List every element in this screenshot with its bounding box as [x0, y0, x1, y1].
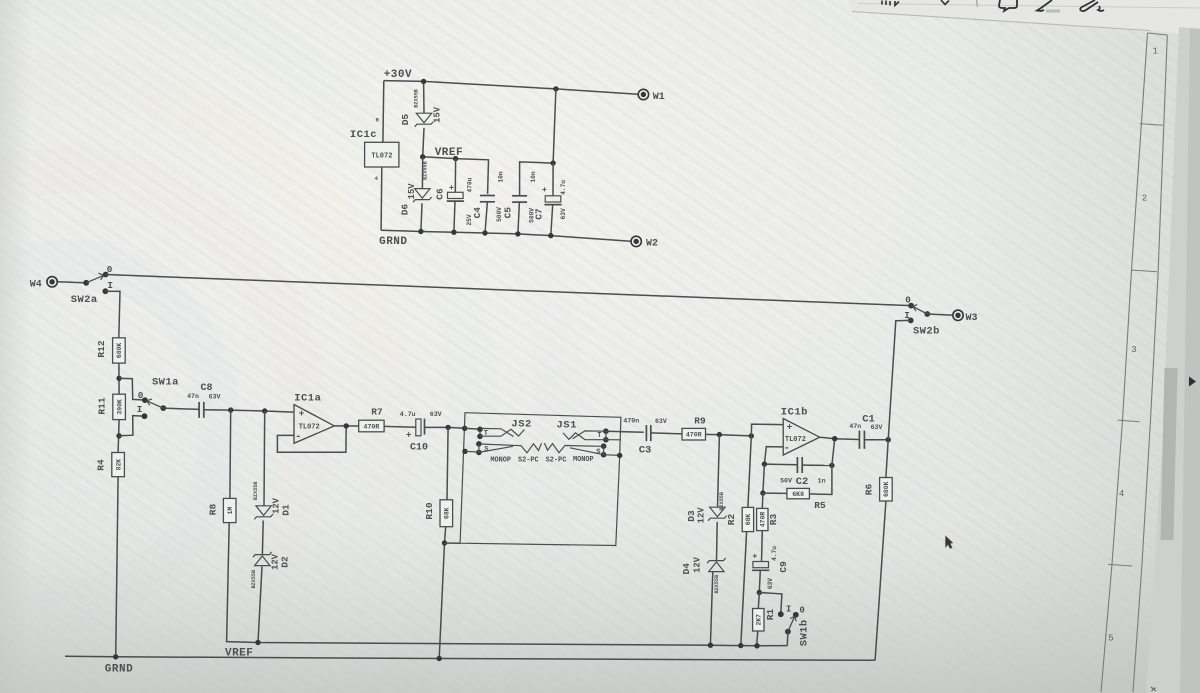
svg-text:0: 0 [138, 390, 144, 401]
junction C2/R5 left [762, 461, 767, 466]
svg-text:IC1b: IC1b [781, 406, 808, 418]
svg-text:680K: 680K [116, 343, 123, 359]
svg-text:W4: W4 [30, 280, 42, 291]
wire frame to JS2 sleeve [465, 450, 479, 453]
wire D5 cathode to VREF [423, 128, 424, 157]
jack JS2 tip arm [481, 428, 514, 436]
switch SW2a contact I [103, 288, 109, 294]
svg-text:D5: D5 [400, 114, 411, 126]
svg-text:63V: 63V [655, 418, 667, 425]
junction GRND/R10 [437, 656, 442, 661]
svg-text:I: I [137, 404, 143, 415]
svg-text:JS2: JS2 [511, 419, 531, 431]
wire JS1 tip to C3 [606, 431, 644, 432]
zener diode D6 [413, 189, 432, 203]
resistor R3 [757, 508, 780, 530]
wire SW1b pole to VREF [786, 632, 789, 646]
svg-text:4.7u: 4.7u [560, 180, 567, 195]
jack JS2 sleeve contact [476, 441, 482, 447]
switch SW1a arm [146, 401, 163, 408]
jack JS2 sleeve blade [479, 446, 513, 452]
switch SW2b arm [911, 306, 927, 314]
svg-text:W2: W2 [646, 239, 658, 250]
wire D3 top [718, 435, 720, 508]
switch SW2b contact 0 [908, 303, 914, 309]
window right edge shade [1180, 28, 1200, 693]
wire SW2b pole to W3 [927, 314, 952, 315]
svg-text:R1: R1 [765, 609, 776, 621]
wire GRND rail (power) [381, 230, 630, 241]
svg-text:47n: 47n [187, 393, 199, 400]
jack JS1 sleeve arm [545, 443, 603, 453]
wire R4 down to GRND [116, 477, 118, 657]
svg-text:68K: 68K [444, 507, 451, 519]
wire R2 top [748, 436, 751, 508]
junction R10/jack-frame [442, 540, 447, 545]
svg-text:TL072: TL072 [371, 153, 392, 161]
switch SW1a contact I [142, 413, 148, 419]
wire D6 top [421, 157, 423, 189]
scrollbar thumb [1161, 368, 1178, 540]
svg-text:6K8: 6K8 [792, 491, 804, 498]
junction C5/C7 top [550, 160, 555, 165]
svg-text:470R: 470R [686, 432, 702, 439]
svg-text:R7: R7 [371, 406, 383, 417]
svg-text:470n: 470n [623, 418, 639, 425]
zener diode D2 [253, 552, 272, 566]
jack JS2 tip switch blade [480, 429, 525, 436]
sheet frame row separator 4/5 [1108, 564, 1132, 566]
wire SW2a-0 to SW2b-0 (long bus) [106, 275, 911, 306]
sheet frame row separator 3/4 [1118, 420, 1140, 422]
svg-text:C4: C4 [472, 207, 483, 219]
svg-text:D2: D2 [280, 556, 291, 568]
wire R7 to C10 [384, 425, 416, 428]
wire R12 to R11 [118, 363, 120, 394]
svg-text:D6: D6 [400, 204, 411, 216]
wire R10 bottom to GRND [439, 527, 446, 659]
svg-text:R8: R8 [208, 504, 219, 516]
switch SW1b contact 0 [793, 612, 799, 618]
svg-text:BZX55B: BZX55B [714, 575, 720, 594]
wire C2 left [764, 463, 796, 466]
resistor R4 [95, 453, 124, 477]
svg-text:+: + [299, 408, 305, 419]
svg-text:470R: 470R [760, 512, 767, 528]
wire +30V down to C5/C7 [553, 89, 556, 163]
svg-text:8: 8 [376, 116, 380, 123]
resistor R7 [359, 406, 384, 432]
wire R1 top [758, 593, 759, 609]
wire R3 top [761, 493, 764, 508]
jack JS2 tip contact [477, 427, 483, 433]
wire C6 top [454, 159, 456, 193]
small mark at bottom edge [1151, 687, 1156, 691]
svg-text:2K7: 2K7 [756, 614, 763, 626]
sheet frame top edge [1148, 33, 1168, 35]
svg-text:GRND: GRND [105, 664, 133, 676]
svg-text:4.7u: 4.7u [400, 411, 416, 418]
resistor R11 [96, 394, 125, 419]
svg-text:4.7u: 4.7u [771, 546, 778, 561]
switch SW2b contact I [908, 318, 914, 324]
svg-text:1n: 1n [818, 477, 826, 484]
wire VREF node [423, 157, 489, 194]
svg-text:R2: R2 [726, 514, 737, 526]
toolbar separator [977, 0, 978, 7]
wire R6 down to GRND [875, 501, 886, 660]
resistor R5 [787, 488, 826, 511]
zener diode D4 [707, 558, 726, 572]
wire C9/R1 node to SW1b-I [759, 593, 782, 614]
svg-text:I: I [107, 280, 113, 291]
capacitor C2 [797, 457, 802, 473]
junction VREF/D4 [708, 643, 713, 648]
jack JS1 tip contact [603, 428, 609, 434]
resistor R2 [726, 507, 754, 531]
wire IC1b inverting input [764, 447, 782, 465]
junction C2/R5 right [829, 463, 834, 468]
switch SW2a arm [86, 275, 104, 283]
wire R8 top [229, 410, 232, 498]
wire C6 bottom [454, 201, 455, 232]
capacitor C4 [480, 196, 495, 202]
svg-text:3: 3 [1131, 345, 1136, 355]
svg-text:R11: R11 [96, 397, 107, 414]
svg-text:C7: C7 [534, 208, 545, 220]
zener diode D5 [415, 113, 434, 127]
wire node to R6 [886, 440, 888, 478]
junction GRND/C6 [451, 230, 456, 235]
junction VREF/D2 [255, 640, 260, 645]
svg-text:+: + [406, 431, 411, 441]
wire frame to JS2 tip [465, 428, 480, 429]
svg-text:BZX55B: BZX55B [423, 161, 429, 180]
svg-text:D3: D3 [686, 510, 697, 522]
svg-text:SW2a: SW2a [71, 294, 98, 306]
panel arrow marker [1189, 377, 1196, 387]
switch SW1b contact I [778, 611, 784, 617]
svg-text:T: T [484, 430, 488, 438]
toolbar icon stylus [1080, 0, 1104, 11]
svg-text:R9: R9 [694, 415, 706, 426]
junction R9/D3 [717, 432, 722, 437]
svg-text:BZX55B: BZX55B [253, 481, 259, 500]
switch SW2b pole [924, 311, 930, 317]
wire C9 bottom [759, 570, 760, 592]
wire R5 right up [809, 465, 832, 494]
connector W3 [953, 310, 963, 320]
svg-text:SW1a: SW1a [152, 377, 179, 389]
svg-text:D4: D4 [681, 563, 692, 575]
svg-text:+: + [752, 551, 757, 561]
toolbar band [848, 0, 1200, 36]
toolbar top hairline [858, 4, 1200, 9]
svg-text:C2: C2 [796, 476, 809, 488]
wire R9 to node [706, 434, 752, 436]
junction C10/R10 [445, 425, 450, 430]
junction VREF/D6 [420, 154, 425, 159]
svg-text:TL072: TL072 [299, 423, 320, 431]
connector W4 [47, 277, 57, 287]
resistor R1 [753, 609, 776, 632]
junction frame/JS1 sleeve [617, 453, 622, 458]
svg-text:C9: C9 [778, 561, 789, 573]
wire R11 to R4 [118, 420, 119, 453]
svg-text:D1: D1 [281, 504, 292, 516]
wire D1 top [263, 411, 266, 506]
svg-text:0: 0 [107, 264, 113, 275]
wire IC1b out [820, 437, 860, 439]
junction GRND/left chain [113, 654, 118, 659]
wire R2 bottom to VREF [741, 532, 747, 646]
svg-text:10n: 10n [530, 171, 537, 182]
svg-text:I: I [786, 604, 791, 614]
svg-text:63V: 63V [871, 424, 883, 431]
wire SW1a pole to C8 [163, 408, 199, 409]
wire JS1 tip lower to frame [606, 439, 621, 441]
svg-text:63V: 63V [560, 208, 567, 219]
svg-text:TL072: TL072 [785, 436, 806, 444]
svg-text:+: + [449, 183, 454, 193]
svg-text:+: + [787, 421, 793, 432]
wire C1 to output node [864, 439, 888, 441]
wire D1 to D2 [261, 521, 264, 555]
wire GRND rail (bottom) [65, 656, 875, 660]
op-amp IC1b [783, 419, 820, 456]
wire feedback to output [832, 439, 835, 466]
svg-text:BZX55B: BZX55B [251, 570, 257, 589]
junction C9/R1 [757, 590, 762, 595]
capacitor C10 (polarized) [416, 419, 425, 436]
wire IC1c top pin to +30V [382, 81, 385, 143]
wire D5 anode [423, 81, 425, 113]
svg-text:5: 5 [1108, 633, 1113, 643]
capacitor C9 (polarized) [752, 562, 769, 571]
sheet frame row separator 2/3 [1132, 270, 1157, 272]
jack JS1 tip arm [573, 431, 606, 439]
svg-text:50V: 50V [780, 477, 792, 484]
svg-text:0: 0 [800, 605, 805, 615]
wire IC1a feedback [277, 426, 346, 452]
connector W1 [638, 89, 648, 99]
resistor R10 [424, 500, 453, 527]
svg-text:2: 2 [1142, 194, 1147, 204]
svg-text:R4: R4 [95, 459, 106, 471]
switch SW1a contact 0 [142, 397, 148, 403]
wire left feedback down [763, 464, 765, 493]
resistor R6 [864, 478, 893, 502]
switch SW2a pole [83, 280, 89, 286]
svg-text:4: 4 [375, 175, 379, 182]
svg-text:T: T [597, 432, 601, 440]
jack JS1 sleeve contact [601, 443, 607, 449]
junction R12/R11/SW1a-0 [116, 376, 121, 381]
jack JS1 sleeve blade [570, 448, 604, 455]
junction R9/R2/IC1b+ [749, 433, 754, 438]
toolbar icon speech bubble [999, 0, 1017, 11]
svg-text:C8: C8 [200, 383, 212, 394]
wire C8 to IC1a+ [204, 410, 293, 412]
connector W2 [631, 236, 641, 246]
svg-text:C5: C5 [502, 207, 513, 219]
svg-text:R6: R6 [864, 484, 875, 496]
svg-text:W1: W1 [653, 92, 665, 103]
wire C10 to jacks [425, 426, 465, 429]
wire JS1 sleeve to frame [604, 454, 620, 457]
svg-text:IC1c: IC1c [350, 129, 377, 141]
wire IC1a out to R7 [334, 425, 358, 427]
wire R3 to C9 [761, 531, 764, 562]
svg-text:MONOP: MONOP [490, 457, 511, 465]
wire R5 left [763, 492, 787, 494]
svg-text:C6: C6 [434, 188, 445, 200]
svg-text:S: S [484, 446, 488, 454]
svg-text:470u: 470u [467, 177, 474, 192]
capacitor C3 [646, 425, 650, 441]
svg-text:R12: R12 [96, 340, 107, 357]
junction C1/R6/SW2b [886, 437, 891, 442]
svg-text:0: 0 [905, 294, 911, 305]
wire junction to SW1a contact I [119, 416, 143, 436]
junction IC1b output [832, 436, 837, 441]
wire junction to SW1a contact 0 [119, 378, 144, 400]
svg-text:470R: 470R [363, 423, 379, 430]
sheet frame row separator 1/2 [1140, 124, 1163, 126]
wire D2 bottom to VREF [258, 566, 262, 642]
jack JS2 sleeve arm [481, 443, 542, 453]
junction C8/R8 [228, 407, 233, 412]
junction R5/R3 [760, 490, 765, 495]
wire C3 to R9 [651, 433, 682, 434]
svg-text:JS1: JS1 [556, 420, 576, 432]
svg-text:W3: W3 [965, 313, 977, 324]
switch SW2a contact 0 [103, 272, 109, 278]
wire D3 to D4 [716, 522, 719, 561]
wire node to IC1b+ [751, 424, 782, 436]
toolbar icon fragment (keys) [882, 1, 899, 6]
junction VREF/R2 [738, 643, 743, 648]
junction GRND/C5 [515, 231, 520, 236]
wire C7 bottom [551, 205, 553, 236]
junction VREF/R1 [754, 643, 759, 648]
svg-text:C10: C10 [410, 442, 428, 453]
svg-text:10n: 10n [497, 171, 504, 182]
sheet frame left border [1101, 33, 1148, 692]
svg-text:R10: R10 [424, 502, 435, 519]
svg-text:S: S [596, 449, 600, 457]
svg-text:680K: 680K [883, 481, 890, 497]
sheet frame right border [1133, 35, 1167, 692]
svg-text:4: 4 [1119, 489, 1124, 499]
svg-text:-: - [295, 431, 301, 443]
svg-text:SW2b: SW2b [913, 325, 940, 337]
svg-text:BZX55B: BZX55B [719, 492, 725, 511]
junction R11/R4/SW1a-I [116, 433, 121, 438]
junction C8/D1 [262, 408, 267, 413]
wire C5 top bend [520, 162, 554, 196]
svg-text:I: I [904, 310, 910, 321]
svg-text:SW1b: SW1b [798, 619, 810, 646]
zener diode D1 [254, 506, 273, 520]
jack frame outline [460, 413, 621, 546]
junction GRND/C4 [482, 230, 487, 235]
resistor R12 [96, 338, 125, 363]
window scroll region [1146, 27, 1200, 693]
junction IC1a output [344, 423, 349, 428]
svg-text:390K: 390K [116, 399, 123, 415]
wire VREF rail (bottom) [227, 523, 788, 646]
capacitor C6 (polarized) [447, 192, 464, 201]
toolbar icon marker pen [1037, 0, 1052, 11]
wire SW2b-I to C1 node [888, 320, 911, 439]
junction +30V/C5C7 branch [553, 86, 558, 91]
svg-text:63V: 63V [209, 394, 221, 401]
svg-text:68K: 68K [745, 514, 752, 526]
toolbar icon fragment (arrow) [941, 0, 949, 5]
svg-text:12V: 12V [693, 556, 703, 573]
switch SW1b pole [785, 629, 791, 635]
junction frame/input [462, 426, 467, 431]
svg-text:R5: R5 [814, 500, 826, 511]
capacitor C1 [859, 431, 864, 449]
svg-text:R3: R3 [768, 514, 779, 526]
svg-text:1M: 1M [227, 507, 234, 515]
svg-text:C3: C3 [639, 445, 652, 457]
wire R10 top [447, 427, 448, 499]
svg-text:BZX55B: BZX55B [413, 89, 419, 108]
zener diode D3 [708, 507, 727, 521]
svg-text:12V: 12V [696, 507, 706, 524]
op-amp power block IC1c [365, 142, 399, 167]
junction VREF/C6 [453, 156, 458, 161]
op-amp IC1a [294, 405, 334, 444]
svg-text:+30V: +30V [384, 69, 412, 81]
wire +30V rail [384, 81, 638, 95]
mouse cursor [946, 536, 953, 549]
wire R10 to frame corner [445, 542, 461, 544]
wire D4 bottom to VREF [710, 572, 712, 646]
jack JS1 tip switch blade [563, 433, 606, 440]
svg-text:GRND: GRND [379, 236, 407, 248]
svg-text:82K: 82K [115, 459, 122, 471]
capacitor C8 [199, 402, 204, 418]
svg-text:15V: 15V [407, 183, 417, 200]
junction frame/JS2 sleeve [462, 449, 467, 454]
svg-text:47n: 47n [849, 423, 861, 430]
capacitor C7 (polarized) [544, 196, 561, 205]
junction GRND/D6 [418, 229, 423, 234]
wire W4 to SW2a pole [58, 282, 84, 283]
wire C5 bottom [518, 202, 520, 234]
svg-text:1: 1 [1153, 47, 1158, 57]
junction GRND/C7 [548, 233, 553, 238]
svg-text:+: + [542, 185, 547, 195]
switch SW1a pole [160, 405, 166, 411]
switch SW1b arm [788, 616, 795, 631]
resistor R9 [682, 415, 706, 440]
wire IC1c bottom pin to GRND [380, 167, 383, 230]
svg-text:IC1a: IC1a [294, 392, 321, 404]
svg-text:S2-PC: S2-PC [546, 456, 567, 464]
capacitor C5 [512, 196, 527, 202]
wire D6 bottom to GRND [421, 203, 422, 231]
svg-text:63V: 63V [767, 578, 774, 589]
resistor R8 [208, 498, 237, 522]
svg-text:15V: 15V [433, 106, 443, 123]
svg-text:MONOP: MONOP [573, 456, 594, 464]
svg-text:63V: 63V [430, 411, 442, 418]
